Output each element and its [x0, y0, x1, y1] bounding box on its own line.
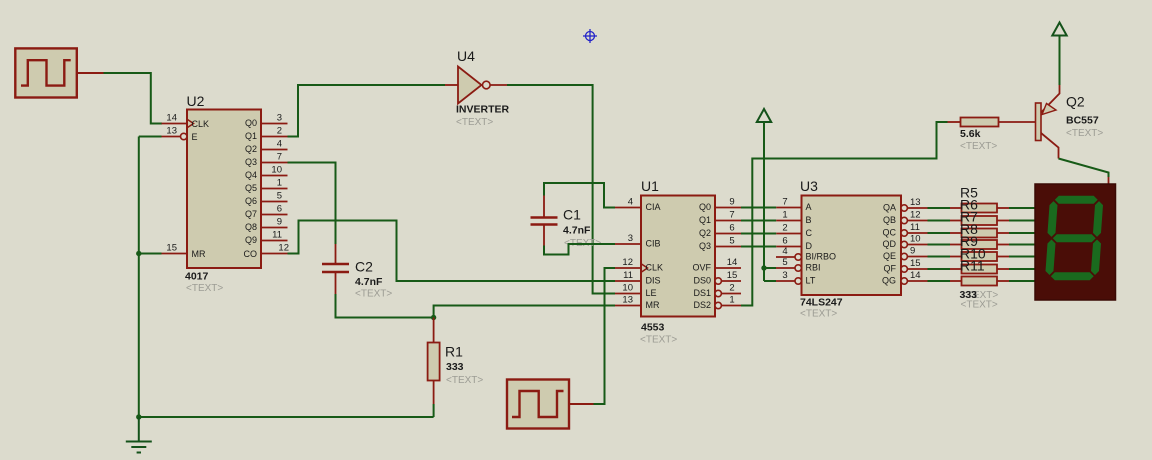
svg-text:<TEXT>: <TEXT> — [640, 335, 677, 346]
wire ground run to R1 bottom — [139, 416, 434, 418]
Q2 body bar — [1036, 103, 1042, 141]
wire C1 top to U1.CIA — [544, 183, 615, 208]
svg-text:MR: MR — [192, 249, 206, 259]
svg-text:CIA: CIA — [646, 202, 661, 212]
U1 pin Q1 7 — [699, 210, 741, 226]
U3 pin B 1 — [776, 210, 811, 226]
svg-text:Q6: Q6 — [245, 196, 257, 206]
U2 pin Q0 3 — [245, 113, 288, 129]
wire U2.Q3 to C2 top — [288, 163, 336, 245]
svg-text:BI/RBO: BI/RBO — [806, 252, 837, 262]
U3 pin QC 11 — [883, 222, 928, 238]
U2 pin CLK 14 — [162, 113, 210, 130]
U3 pin QB 12 — [883, 210, 928, 226]
wire U1.Q2 to U3 input — [741, 233, 776, 235]
C2 bottom stub — [335, 273, 337, 294]
U4 output stub — [490, 84, 507, 86]
pulse generator V1 (square-wave source) — [15, 48, 103, 97]
wire power to U3.LT — [764, 280, 776, 282]
svg-text:Q1: Q1 — [245, 131, 257, 141]
capacitor C1 4.7nF — [531, 196, 602, 250]
wire U2.Q1 to U4 input — [288, 85, 446, 137]
svg-text:MR: MR — [646, 300, 660, 310]
U3 pin QE 9 — [883, 246, 928, 262]
U2 pin CO 12 — [244, 243, 290, 260]
wire U1.DS2 to R4 5.6k — [741, 122, 948, 306]
svg-text:U2: U2 — [187, 93, 205, 109]
U1 pin CIB 3 — [615, 233, 661, 249]
ground symbol — [126, 442, 152, 453]
U2 pin MR 15 — [162, 243, 206, 260]
display anode stub — [1108, 177, 1110, 184]
svg-text:Q0: Q0 — [245, 118, 257, 128]
svg-text:5.6k: 5.6k — [960, 128, 981, 140]
wire V1 out to U2.CLK — [104, 73, 163, 124]
svg-text:C: C — [806, 228, 813, 238]
U2 pin Q6 5 — [245, 191, 288, 207]
svg-text:Q3: Q3 — [699, 241, 711, 251]
svg-text:DS2: DS2 — [693, 300, 711, 310]
svg-text:14: 14 — [910, 270, 921, 281]
wire R6 to display — [1009, 220, 1036, 222]
svg-text:A: A — [806, 202, 812, 212]
5.6k body — [961, 118, 999, 127]
Q2 emitter arrow — [1042, 104, 1056, 115]
power symbol at U3 — [757, 109, 771, 281]
wire U1.Q1 to U3 input — [741, 220, 776, 222]
svg-text:BC557: BC557 — [1066, 115, 1099, 127]
R1 top stub — [433, 318, 435, 343]
U1 pin CLK 12 — [615, 257, 663, 273]
svg-text:<TEXT>: <TEXT> — [355, 289, 392, 300]
svg-text:Q1: Q1 — [699, 215, 711, 225]
U2 pin Q7 6 — [245, 204, 288, 220]
svg-text:QB: QB — [883, 215, 896, 225]
svg-text:3: 3 — [277, 113, 282, 124]
segment b — [1093, 201, 1103, 237]
svg-text:DS0: DS0 — [693, 276, 711, 286]
junction at U2.MR branch — [136, 251, 141, 256]
svg-text:Q9: Q9 — [245, 235, 257, 245]
wire C2 bottom to junction — [336, 294, 434, 318]
svg-text:5: 5 — [782, 257, 787, 268]
svg-text:2: 2 — [277, 126, 282, 137]
wire power to U3.RBI — [764, 267, 776, 269]
U3 body — [802, 196, 902, 296]
svg-text:Q2: Q2 — [1066, 94, 1085, 110]
segment g — [1053, 234, 1096, 242]
chip U2 4017 decade counter — [162, 93, 290, 294]
resistor R5 — [950, 204, 1009, 213]
U4 input stub — [445, 84, 458, 86]
U3 pin QD 10 — [883, 234, 928, 250]
svg-text:6: 6 — [729, 223, 734, 234]
U1 pin Q0 9 — [699, 197, 741, 213]
segment a — [1055, 196, 1098, 204]
svg-text:333: 333 — [446, 361, 464, 373]
svg-text:DIS: DIS — [646, 276, 661, 286]
wire U3 to R9 — [928, 256, 951, 258]
U3 pin QG 14 — [882, 270, 928, 286]
svg-text:4: 4 — [277, 139, 282, 150]
resistor R10 — [950, 265, 1009, 274]
svg-text:14: 14 — [166, 113, 177, 124]
U3 pin QF 15 — [884, 258, 928, 274]
svg-text:13: 13 — [622, 295, 633, 306]
svg-text:6: 6 — [277, 204, 282, 215]
svg-text:Q4: Q4 — [245, 170, 257, 180]
svg-text:2: 2 — [729, 283, 734, 294]
wire C1 bottom to U1.CIB — [544, 244, 615, 255]
segment d — [1051, 272, 1094, 280]
svg-text:74LS247: 74LS247 — [800, 297, 843, 309]
svg-text:6: 6 — [782, 236, 787, 247]
svg-text:7: 7 — [729, 210, 734, 221]
U2 pin Q1 2 — [245, 126, 288, 142]
U1 pin Q2 6 — [699, 223, 741, 239]
svg-text:1: 1 — [729, 295, 734, 306]
svg-text:Q0: Q0 — [699, 202, 711, 212]
wire R8 to display — [1009, 244, 1036, 246]
svg-text:R1: R1 — [445, 344, 463, 360]
wire U2.CO to U1.DIS — [288, 221, 616, 282]
svg-text:12: 12 — [622, 257, 633, 268]
svg-text:OVF: OVF — [692, 263, 711, 273]
wire U3 to R5 — [928, 207, 951, 209]
U2 pin Q5 1 — [245, 178, 288, 194]
U3 pin QA 13 — [883, 197, 928, 213]
display body — [1035, 184, 1116, 300]
svg-text:9: 9 — [910, 246, 915, 257]
pulse generator V2 (square-wave source) — [507, 380, 594, 429]
wire junction up to U1.MR — [434, 306, 615, 318]
svg-text:<TEXT>: <TEXT> — [960, 141, 997, 152]
svg-text:<TEXT>: <TEXT> — [961, 300, 998, 311]
svg-text:C1: C1 — [563, 207, 581, 223]
U2 pin Q4 10 — [245, 165, 288, 181]
svg-text:<TEXT>: <TEXT> — [456, 117, 493, 128]
U1 body — [641, 196, 715, 317]
wire R5 to display — [1009, 207, 1036, 209]
wire R10 to display — [1009, 268, 1036, 270]
svg-text:7: 7 — [782, 197, 787, 208]
resistor network R5-R11 — [928, 184, 1037, 310]
svg-text:12: 12 — [910, 210, 921, 221]
svg-text:4: 4 — [628, 197, 633, 208]
junction at ground — [136, 414, 141, 419]
5.6k right stub — [999, 121, 1036, 123]
resistor R11 — [950, 277, 1009, 286]
segment e — [1046, 240, 1056, 276]
svg-text:1: 1 — [782, 210, 787, 221]
wire V2 out to U1.CLK — [594, 268, 616, 404]
wire U2.E to left vertical — [139, 136, 162, 138]
svg-text:Q2: Q2 — [699, 228, 711, 238]
svg-text:10: 10 — [622, 283, 633, 294]
power symbol at Q2 — [1052, 23, 1066, 36]
inverter U4 — [445, 48, 510, 128]
junction at R1 top / U1.MR — [431, 315, 436, 320]
resistor R7 — [950, 229, 1009, 238]
wire R11 to display — [1009, 280, 1036, 282]
Q2 emitter — [1041, 85, 1060, 113]
wire U3 to R6 — [928, 220, 951, 222]
transistor Q2 BC557 — [1036, 85, 1104, 159]
U2 pin Q8 9 — [245, 217, 288, 233]
svg-text:4553: 4553 — [641, 322, 665, 334]
U4 triangle — [458, 67, 482, 104]
U1 pin DS1 2 — [693, 283, 741, 299]
svg-text:CLK: CLK — [646, 263, 664, 273]
svg-text:Q5: Q5 — [245, 183, 257, 193]
U2 pin Q3 7 — [245, 152, 288, 168]
svg-text:4.7nF: 4.7nF — [563, 225, 591, 237]
junction at U3.RBI — [761, 265, 766, 270]
7-segment display — [1035, 184, 1116, 300]
svg-text:INVERTER: INVERTER — [456, 104, 510, 116]
svg-text:QG: QG — [882, 276, 896, 286]
U1 pin DIS 11 — [615, 270, 661, 286]
wire U3 to R11 — [928, 280, 951, 282]
svg-text:15: 15 — [727, 270, 738, 281]
segment c — [1091, 240, 1101, 276]
U1 pin LE 10 — [615, 283, 657, 299]
svg-text:4.7nF: 4.7nF — [355, 276, 383, 288]
wire U1.Q0 to U3 input — [741, 207, 776, 209]
U2 pin Q2 4 — [245, 139, 288, 155]
svg-text:4: 4 — [782, 246, 787, 257]
svg-text:2: 2 — [782, 223, 787, 234]
U1 pin CIA 4 — [615, 197, 661, 213]
U1 pin DS0 15 — [693, 270, 741, 286]
svg-text:E: E — [192, 132, 198, 142]
svg-text:RBI: RBI — [806, 263, 821, 273]
U3 pin BI/RBO 4 — [776, 246, 836, 262]
U1 pin OVF 14 — [692, 257, 741, 273]
svg-text:15: 15 — [166, 243, 177, 254]
U3 pin C 2 — [776, 223, 812, 239]
resistor R8 — [950, 240, 1009, 249]
U3 pin A 7 — [776, 197, 811, 213]
svg-text:CLK: CLK — [192, 119, 210, 129]
svg-text:9: 9 — [277, 217, 282, 228]
svg-text:<TEXT>: <TEXT> — [800, 309, 837, 320]
svg-text:5: 5 — [729, 236, 734, 247]
wire Q2 emitter to power — [1059, 36, 1061, 86]
C1 bottom stub — [543, 226, 545, 246]
svg-text:LT: LT — [806, 276, 816, 286]
svg-text:Q8: Q8 — [245, 222, 257, 232]
svg-text:15: 15 — [910, 258, 921, 269]
svg-text:QA: QA — [883, 203, 896, 213]
segment f — [1048, 201, 1058, 237]
wire R9 to display — [1009, 256, 1036, 258]
svg-text:5: 5 — [277, 191, 282, 202]
C2 top stub — [335, 244, 337, 263]
svg-text:11: 11 — [623, 270, 633, 281]
svg-text:R11: R11 — [960, 258, 985, 274]
wire Q2 collector to display anode — [1059, 159, 1109, 178]
resistor R6 — [950, 216, 1009, 225]
svg-text:DS1: DS1 — [693, 288, 711, 298]
svg-text:3: 3 — [782, 270, 787, 281]
C1 top stub — [543, 196, 545, 217]
5.6k left stub — [948, 121, 961, 123]
wire left vertical (E/MR/GND net) — [138, 137, 140, 418]
resistor R4 5.6k — [948, 118, 1036, 153]
U2 pin Q9 11 — [245, 230, 288, 246]
svg-text:10: 10 — [271, 165, 282, 176]
wire U3 to R10 — [928, 268, 951, 270]
svg-text:D: D — [806, 241, 813, 251]
chip U1 4553 BCD counter — [615, 178, 741, 346]
wire U1.Q3 to U3 input — [741, 246, 776, 248]
R1 bottom stub — [433, 381, 435, 405]
C2 plates — [322, 263, 349, 266]
svg-text:11: 11 — [910, 222, 920, 233]
resistor R9 — [950, 252, 1009, 261]
U3 pin RBI 5 — [776, 257, 821, 273]
capacitor C2 4.7nF — [322, 244, 392, 300]
svg-text:U4: U4 — [457, 48, 475, 64]
svg-text:13: 13 — [910, 197, 921, 208]
U1 pin MR 13 — [615, 295, 660, 311]
svg-text:12: 12 — [278, 243, 289, 254]
svg-text:<TEXT>: <TEXT> — [1066, 128, 1103, 139]
resistor R1 333 — [428, 318, 484, 405]
Q2 collector — [1041, 133, 1059, 159]
wire to U2.MR — [139, 253, 162, 255]
svg-text:<TEXT>: <TEXT> — [186, 283, 223, 294]
U3 pin LT 3 — [776, 270, 816, 286]
wire ground stem — [138, 417, 140, 442]
svg-text:QD: QD — [883, 239, 897, 249]
svg-text:10: 10 — [910, 234, 921, 245]
svg-text:Q3: Q3 — [245, 157, 257, 167]
U4 bubble — [483, 81, 491, 89]
U2 pin E 13 (active low) — [162, 126, 198, 143]
svg-text:11: 11 — [272, 230, 282, 241]
svg-text:QF: QF — [884, 264, 897, 274]
U3 pin D 6 — [776, 236, 812, 252]
origin marker — [583, 29, 597, 43]
svg-text:U1: U1 — [641, 178, 659, 194]
svg-text:QE: QE — [883, 251, 896, 261]
svg-text:U3: U3 — [800, 178, 818, 194]
svg-text:4017: 4017 — [185, 271, 209, 283]
wire U3 to R7 — [928, 232, 951, 234]
svg-text:LE: LE — [646, 288, 657, 298]
chip U3 74LS247 BCD-7seg decoder — [776, 178, 928, 320]
svg-text:CIB: CIB — [646, 239, 661, 249]
U1 pin Q3 5 — [699, 236, 741, 252]
svg-text:3: 3 — [628, 233, 633, 244]
U1 pin DS2 1 — [693, 295, 741, 311]
svg-text:<TEXT>: <TEXT> — [446, 375, 483, 386]
svg-text:Q7: Q7 — [245, 209, 257, 219]
svg-text:1: 1 — [277, 178, 282, 189]
U2 body — [187, 110, 261, 269]
wire R1 bottom to ground run — [433, 404, 435, 417]
svg-text:13: 13 — [166, 126, 177, 137]
C1 plates — [531, 216, 558, 219]
wire U4 out to U1.LE — [507, 85, 615, 294]
svg-text:CO: CO — [244, 249, 258, 259]
wire R7 to display — [1009, 232, 1036, 234]
svg-text:C2: C2 — [355, 259, 373, 275]
wire U3 to R8 — [928, 244, 951, 246]
svg-text:Q2: Q2 — [245, 144, 257, 154]
svg-text:B: B — [806, 215, 812, 225]
svg-text:14: 14 — [727, 257, 738, 268]
svg-text:9: 9 — [729, 197, 734, 208]
svg-text:7: 7 — [277, 152, 282, 163]
R1 body — [428, 343, 440, 381]
svg-text:QC: QC — [883, 228, 897, 238]
